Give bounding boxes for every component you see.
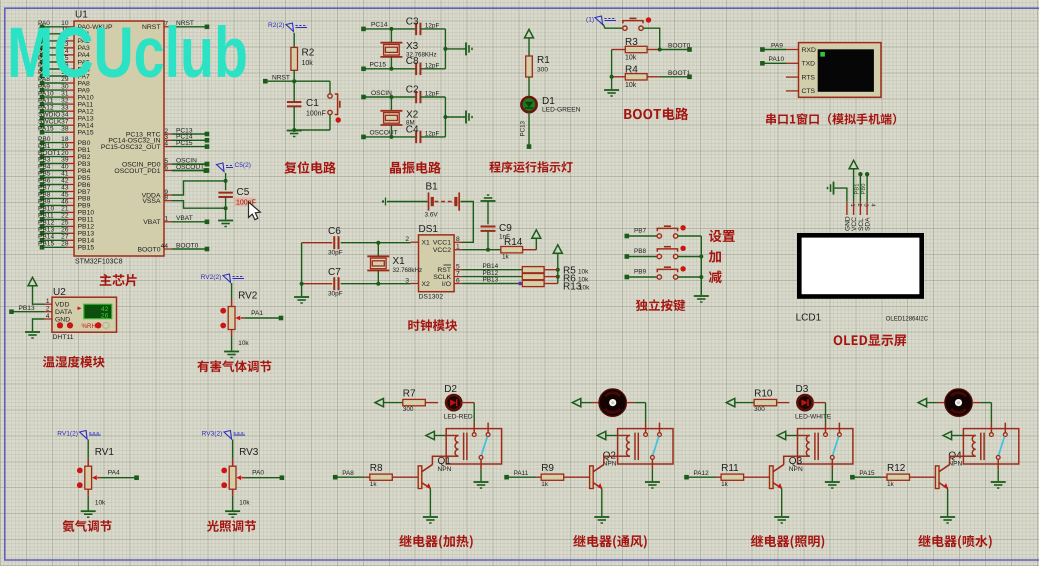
svg-text:D1: D1 [542, 96, 555, 107]
label 有害气体调节 [197, 360, 271, 372]
capacitor C6 30pF [302, 242, 333, 244]
svg-text:39: 39 [61, 157, 69, 164]
svg-text:32.768kHz: 32.768kHz [393, 267, 423, 274]
svg-text:X2: X2 [422, 281, 431, 288]
svg-text:PB4: PB4 [78, 168, 91, 175]
label 继电器(喷水) [918, 535, 991, 549]
label 晶振电路 [390, 161, 441, 173]
relay drive arrow [943, 431, 952, 439]
left rail + ground [301, 243, 303, 296]
relay contact ground [831, 469, 833, 481]
terminal pin RXD [786, 49, 799, 51]
wire VSSA to C5 [172, 201, 226, 209]
svg-text:OSCIN: OSCIN [371, 90, 392, 97]
svg-text:PB13: PB13 [19, 305, 35, 312]
svg-text:10k: 10k [239, 500, 250, 507]
svg-text:R3: R3 [625, 37, 638, 48]
svg-text:STM32F103C8: STM32F103C8 [75, 259, 123, 266]
resistor R2 10k [293, 33, 295, 47]
power arrow [525, 29, 534, 38]
resistor R6 10k / net PB12 [462, 276, 522, 278]
svg-text:DS1302: DS1302 [419, 294, 444, 301]
svg-text:C6: C6 [328, 226, 341, 237]
svg-text:OSCOUT: OSCOUT [370, 130, 398, 137]
svg-text:22: 22 [61, 213, 69, 220]
pin 6 OSCOUT_PD1 [164, 170, 172, 172]
svg-text:100nF: 100nF [306, 111, 326, 118]
svg-text:X1: X1 [422, 240, 431, 247]
wire battery to VCC1 [461, 202, 474, 243]
net PB9 wire [627, 276, 657, 278]
MCU U1 STM32F103C8 [74, 21, 164, 256]
capacitor C7 30pF [302, 283, 333, 285]
resistor R4 10k [612, 76, 626, 78]
svg-text:VCC1: VCC1 [433, 240, 451, 247]
svg-text:38: 38 [61, 125, 69, 132]
pin 39 PB3 / net PB3 [66, 163, 74, 165]
label 加 [709, 250, 721, 262]
label 设置 [709, 230, 735, 243]
svg-text:PA12: PA12 [78, 109, 94, 116]
pin 45 PB8 / net PB8 [66, 197, 74, 199]
svg-text:(1): (1) [586, 17, 594, 24]
svg-text:PB3: PB3 [38, 157, 51, 164]
label 复位电路 [284, 161, 336, 173]
svg-text:PB0: PB0 [78, 140, 91, 147]
potentiometer RV2 10k [231, 283, 233, 299]
capacitor C4 12pF [415, 131, 417, 144]
svg-text:PB1: PB1 [38, 143, 51, 150]
svg-text:PA10: PA10 [78, 94, 94, 101]
svg-text:27: 27 [61, 234, 69, 241]
svg-text:6: 6 [456, 277, 460, 284]
DS1302 pin 7 SCLK [454, 276, 462, 278]
svg-text:8: 8 [164, 195, 168, 202]
svg-text:PB7: PB7 [634, 228, 647, 235]
pin 22 PB11 / net PB11 [66, 218, 74, 220]
svg-text:8M: 8M [406, 120, 415, 127]
svg-text:R10: R10 [754, 388, 773, 399]
wire VCC2 rail [462, 249, 501, 251]
pin 20 PB2 / net BOOT1 [66, 156, 74, 158]
svg-text:4: 4 [46, 313, 50, 320]
relay contact ground [997, 469, 999, 481]
pin 3 PC14-OSC32_IN [164, 139, 172, 141]
power arrow R7 [375, 398, 384, 406]
svg-text:RV1(2): RV1(2) [57, 431, 78, 438]
terminal pin TXD [786, 62, 799, 64]
svg-text:3.6V: 3.6V [425, 212, 439, 219]
resistor R1 300 [528, 38, 530, 56]
svg-text:RV3: RV3 [239, 447, 259, 458]
svg-text:LED-WHITE: LED-WHITE [795, 414, 832, 421]
OLED display LCD1 [799, 235, 921, 296]
net PC15 wire [364, 68, 417, 70]
svg-text:C3: C3 [406, 16, 419, 27]
DS1302 pin 1 VCC2 [454, 249, 462, 251]
junction artifact [518, 282, 522, 286]
pin 7 NRST [164, 26, 172, 28]
svg-text:300: 300 [537, 67, 548, 74]
pin 34 PA13 / net SWDIO [66, 117, 74, 119]
pin 26 PB13 / net PB13 [66, 232, 74, 234]
capacitor C3 12pF [415, 23, 417, 36]
label 减 [709, 271, 722, 284]
DS1302 pin 5 RST [454, 269, 462, 271]
mouse cursor [249, 202, 261, 220]
svg-text:C7: C7 [328, 267, 341, 278]
svg-text:PB5: PB5 [78, 175, 91, 182]
svg-text:D2: D2 [444, 384, 457, 395]
label BOOT电路 [624, 108, 688, 121]
net PC13 wire [528, 112, 530, 146]
svg-text:PB10: PB10 [78, 210, 95, 217]
net OSCOUT wire [364, 136, 417, 138]
svg-text:PB15: PB15 [78, 245, 95, 252]
pin 1 VBAT [164, 221, 172, 223]
svg-text:PA9: PA9 [771, 42, 783, 49]
label 继电器(照明) [751, 535, 824, 549]
svg-text:DHT11: DHT11 [53, 334, 74, 341]
pin 29 PA8 / net PA8 [66, 82, 74, 84]
pin 32 PA11 / net PA11 [66, 103, 74, 105]
pin 46 PB9 / net PB9 [66, 204, 74, 206]
svg-text:4: 4 [164, 140, 168, 147]
svg-text:PB8: PB8 [634, 248, 647, 255]
svg-text:NPN: NPN [789, 466, 803, 473]
pin 40 PB4 / net PB4 [66, 170, 74, 172]
svg-text:BOOT0: BOOT0 [176, 242, 199, 249]
svg-text:10k: 10k [238, 340, 249, 347]
pin 11 PA1 / net PA1 [66, 33, 74, 35]
svg-text:CTS: CTS [802, 88, 816, 95]
svg-text:PB0: PB0 [38, 136, 51, 143]
right rail + ground [444, 97, 446, 137]
svg-text:10k: 10k [302, 60, 314, 67]
svg-text:R2: R2 [302, 48, 315, 59]
DS1302 pin 8 VCC1 [454, 241, 462, 243]
svg-text:R1: R1 [537, 55, 550, 66]
button common rail + ground [700, 236, 702, 295]
svg-text:RTS: RTS [802, 74, 816, 81]
power arrow motor [918, 398, 927, 406]
svg-text:LED-GREEN: LED-GREEN [542, 107, 581, 114]
label 温湿度模块 [43, 356, 105, 368]
button 加 [657, 254, 661, 258]
net PC14 wire [364, 28, 417, 30]
svg-text:45: 45 [61, 192, 69, 199]
svg-text:1k: 1k [541, 481, 549, 488]
svg-text:1k: 1k [370, 481, 378, 488]
svg-text:PC15: PC15 [176, 140, 193, 147]
label 主芯片 [100, 274, 137, 286]
terminal pin RTS [786, 76, 799, 78]
pin 27 PB14 / net PB14 [66, 239, 74, 241]
svg-text:RV2(2): RV2(2) [201, 274, 222, 281]
svg-text:PC15-OSC32_OUT: PC15-OSC32_OUT [101, 144, 161, 151]
resistor R5 10k / net PB14 [462, 269, 522, 271]
pin 38 PA15 / net PA15 [66, 131, 74, 133]
resistor R13 10k / net PB13 [462, 283, 522, 285]
OLED SCL wire / net PB1 [859, 174, 861, 202]
svg-text:PB4: PB4 [38, 164, 51, 171]
pin 13 PA3 / net PA3 [66, 47, 74, 49]
svg-text:R11: R11 [721, 463, 739, 474]
Q1 collector wire [432, 456, 446, 464]
OLED GND wire + ground [835, 188, 847, 202]
svg-text:2: 2 [405, 236, 409, 243]
svg-text:NPN: NPN [438, 466, 452, 473]
wire VDDA to C5 [172, 181, 226, 195]
Q3 emitter ground [781, 489, 783, 516]
svg-text:PB9: PB9 [634, 269, 647, 276]
svg-text:PA12: PA12 [694, 470, 710, 477]
svg-text:10k: 10k [578, 269, 589, 276]
resistor R8 1k [335, 476, 365, 478]
resistor R14 1k [501, 247, 523, 253]
svg-text:10k: 10k [625, 55, 637, 62]
svg-text:PB11: PB11 [38, 213, 54, 220]
pin 15 PA5 / net PA5 [66, 61, 74, 63]
svg-text:PA11: PA11 [38, 97, 53, 104]
svg-text:PA15: PA15 [38, 125, 54, 132]
svg-text:PA11: PA11 [514, 470, 529, 477]
label 继电器(加热) [399, 535, 472, 549]
svg-text:26: 26 [61, 227, 69, 234]
svg-text:44: 44 [161, 243, 169, 250]
net OSCIN wire [364, 96, 417, 98]
potentiometer RV1 10k [87, 440, 89, 459]
relay 继电器(照明) [798, 429, 853, 464]
label 串口1窗口（模拟手机端） [766, 113, 896, 125]
right rail + ground [444, 29, 446, 69]
svg-text:NPN: NPN [948, 461, 962, 468]
pin 31 PA10 / net PA10 [66, 96, 74, 98]
svg-text:LCD1: LCD1 [796, 313, 822, 324]
svg-text:R14: R14 [504, 237, 523, 248]
svg-text:PB13: PB13 [38, 227, 54, 234]
svg-text:RV1: RV1 [95, 447, 115, 458]
ground under C1 [293, 106, 295, 130]
virtual terminal box [799, 43, 882, 98]
svg-text:1k: 1k [887, 481, 895, 488]
svg-text:PC14: PC14 [371, 22, 388, 29]
button 减 [657, 275, 661, 279]
svg-text:PA1: PA1 [251, 310, 263, 317]
power arrow motor [572, 398, 581, 406]
net PA4 wire [101, 477, 137, 479]
label 氨气调节 [63, 520, 112, 532]
capacitor C5 100nF [225, 173, 227, 190]
svg-text:PB9: PB9 [78, 203, 91, 210]
net PB8 wire [627, 256, 657, 258]
svg-text:10k: 10k [95, 500, 106, 507]
svg-text:DATA: DATA [55, 309, 73, 316]
relay 继电器(喷水) [963, 429, 1018, 464]
DS1302 pin 2 X1 [411, 241, 419, 243]
svg-text:PB8: PB8 [78, 196, 91, 203]
svg-text:4: 4 [869, 204, 875, 208]
svg-text:D3: D3 [796, 384, 809, 395]
svg-text:R9: R9 [541, 463, 554, 474]
DHT11 indicators [57, 322, 63, 328]
wire OSCOUT stub [172, 170, 206, 172]
svg-text:C2: C2 [406, 84, 419, 95]
svg-text:PB13: PB13 [483, 277, 499, 284]
resistor R11 1k [687, 476, 717, 478]
relay drive arrow [597, 431, 606, 439]
pin 18 PB0 / net PB0 [66, 142, 74, 144]
svg-text:PB13: PB13 [78, 231, 95, 238]
svg-text:RXD: RXD [802, 47, 816, 54]
Q4 emitter ground [947, 489, 949, 516]
pin 4 PC15-OSC32_OUT [164, 146, 172, 148]
svg-text:B1: B1 [426, 182, 439, 193]
svg-text:VSSA: VSSA [142, 198, 161, 205]
crystal X3 32.768KHz [390, 29, 392, 43]
svg-text:GND: GND [55, 316, 70, 323]
LED D2 LED-RED [446, 395, 461, 410]
net NRST wire [293, 70, 295, 102]
svg-text:PB1: PB1 [78, 147, 91, 154]
svg-text:RV3(2): RV3(2) [202, 431, 223, 438]
svg-text:PB5: PB5 [38, 171, 51, 178]
svg-text:19: 19 [61, 143, 69, 150]
net BOOT0 wire [658, 48, 662, 52]
svg-text:40: 40 [61, 164, 69, 171]
svg-text:26: 26 [101, 313, 109, 320]
label 独立按键 [636, 299, 685, 311]
svg-text:PC15: PC15 [370, 62, 387, 69]
resistor R9 1k [507, 476, 536, 478]
svg-text:30pF: 30pF [328, 250, 343, 257]
transistor Q4 NPN [935, 466, 939, 489]
svg-text:PB3: PB3 [78, 161, 91, 168]
DS1302 pin 3 X2 [411, 283, 419, 285]
reset button [329, 81, 331, 94]
svg-text:10k: 10k [625, 82, 637, 89]
pin 44 BOOT0 [164, 248, 172, 250]
relay drive arrow [426, 431, 435, 439]
svg-text:37: 37 [61, 118, 69, 125]
capacitor C2 12pF [415, 91, 417, 104]
net PB7 wire [627, 235, 657, 237]
svg-text:MCUclub: MCUclub [7, 14, 248, 93]
ground RV1 [87, 489, 89, 496]
pin 10 PA0-WKUP / net PA0 [66, 26, 74, 28]
wire button to BOOT0 [643, 28, 660, 49]
svg-text:TXD: TXD [802, 61, 816, 68]
svg-text:1: 1 [164, 216, 168, 223]
pin 5 OSCIN_PD0 [164, 163, 172, 165]
svg-text:PB14: PB14 [38, 234, 54, 241]
pin 2 PC13_RTC [164, 133, 172, 135]
pin 42 PB6 / net PB6 [66, 184, 74, 186]
resistor R7 300 [403, 399, 426, 405]
LED D3 LED-WHITE [797, 395, 812, 410]
wire OSCIN to label [172, 163, 207, 165]
pin 28 PB15 / net PB15 [66, 246, 74, 248]
OLED pin stubs [846, 202, 848, 215]
svg-text:X1: X1 [393, 256, 406, 267]
svg-text:PB15: PB15 [38, 241, 54, 248]
svg-text:41: 41 [61, 171, 69, 178]
relay contact ground [480, 469, 482, 481]
svg-text:BOOT0: BOOT0 [668, 43, 691, 50]
svg-text:32.768KHz: 32.768KHz [406, 52, 437, 59]
svg-text:1: 1 [46, 298, 50, 305]
svg-text:R12: R12 [887, 463, 906, 474]
svg-text:1k: 1k [721, 481, 729, 488]
pin 8 VSSA [164, 200, 172, 202]
U2 pin 2 DATA [44, 311, 52, 313]
svg-text:1: 1 [456, 244, 460, 251]
svg-text:PB14: PB14 [78, 238, 95, 245]
svg-text:33: 33 [61, 104, 69, 111]
relay 继电器(通风) [618, 429, 673, 464]
svg-text:VBAT: VBAT [143, 219, 160, 226]
transistor Q1 NPN [418, 466, 422, 489]
svg-text:SDA: SDA [865, 217, 872, 231]
pin 12 PA2 / net PA2 [66, 40, 74, 42]
crystal X1 32.768kHz [376, 241, 380, 245]
net PA9 wire [762, 49, 786, 51]
svg-text:VDD: VDD [55, 302, 69, 309]
label OLED显示屏 [834, 335, 907, 347]
svg-text:NPN: NPN [603, 461, 617, 468]
pin 21 PB10 / net PB10 [66, 211, 74, 213]
pin 37 PA14 / net SWCLK [66, 124, 74, 126]
svg-text:PA11: PA11 [78, 101, 94, 108]
svg-text:SWCLK: SWCLK [38, 118, 62, 125]
net PB13 wire to DATA [12, 311, 45, 313]
net PA10 wire [762, 62, 786, 64]
svg-text:U2: U2 [53, 287, 66, 298]
svg-text:PB6: PB6 [78, 182, 91, 189]
pin 25 PB12 / net PB12 [66, 225, 74, 227]
net BOOT1 wire [660, 76, 690, 78]
svg-text:300: 300 [754, 406, 765, 413]
Q4 collector wire [950, 456, 964, 464]
pin 19 PB1 / net PB1 [66, 149, 74, 151]
svg-text:C1: C1 [306, 98, 319, 109]
svg-text:PA15: PA15 [78, 130, 94, 137]
svg-text:C5(2): C5(2) [235, 162, 252, 169]
svg-text:28: 28 [61, 241, 69, 248]
svg-text:PA10: PA10 [769, 56, 785, 63]
svg-text:32: 32 [61, 97, 69, 104]
label 光照调节 [207, 520, 256, 532]
pin 14 PA4 / net PA4 [66, 54, 74, 56]
svg-text:VCC2: VCC2 [433, 247, 451, 254]
pin 16 PA6 / net PA6 [66, 68, 74, 70]
ground RV3 [232, 489, 234, 496]
pin 9 VDDA [164, 194, 172, 196]
svg-text:8: 8 [456, 236, 460, 243]
DHT11 U2 box [52, 297, 117, 332]
svg-text:C9: C9 [499, 223, 512, 234]
svg-text:BOOT1: BOOT1 [668, 70, 691, 77]
svg-text:PA13: PA13 [78, 116, 94, 123]
LED D1 LED-GREEN [521, 97, 536, 112]
svg-text:PB0: PB0 [861, 184, 867, 195]
relay contact ground [651, 469, 653, 481]
svg-text:OLED12864I2C: OLED12864I2C [886, 316, 929, 322]
Q2 emitter ground [601, 489, 603, 516]
Q2 collector wire [604, 456, 618, 464]
svg-text:R2(2): R2(2) [268, 22, 285, 29]
svg-text:PB1: PB1 [854, 184, 860, 195]
